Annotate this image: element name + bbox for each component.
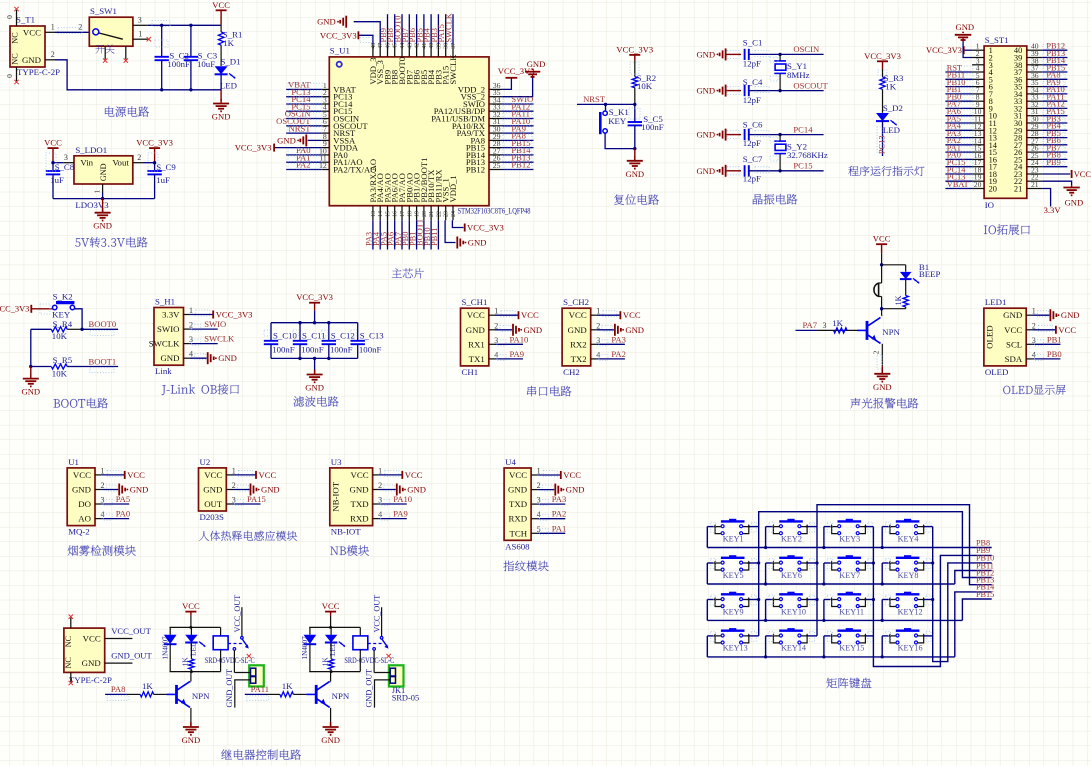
wire key left drop: [881, 600, 883, 621]
capacitor S_C4 12pF: [744, 85, 746, 96]
wire: [945, 100, 972, 102]
svg-text:S_LDO1: S_LDO1: [75, 145, 107, 155]
wire bottom: [882, 308, 906, 310]
svg-text:KEY10: KEY10: [781, 607, 806, 616]
wire: [945, 180, 972, 182]
no-connect X: [14, 80, 18, 84]
svg-text:32.768KHz: 32.768KHz: [787, 150, 828, 160]
svg-text:S_C4: S_C4: [743, 77, 763, 87]
wire pin1 to VCC_3V3: [964, 49, 972, 51]
svg-text:SWCLK: SWCLK: [204, 334, 235, 344]
wire: [190, 314, 213, 316]
svg-text:41: 41: [422, 43, 428, 49]
wire: [945, 115, 972, 117]
wire pin2 to GND: [963, 42, 972, 58]
svg-text:PA5: PA5: [116, 494, 131, 504]
wire: [945, 107, 972, 109]
ground left of S_C4: [725, 85, 727, 97]
wire: [1042, 144, 1067, 146]
wire base: [245, 693, 267, 695]
wire key right exit: [865, 562, 873, 564]
ground GND top: [345, 16, 347, 28]
button KEY7: [846, 555, 853, 558]
wire: [452, 14, 454, 44]
svg-text:S_C6: S_C6: [743, 120, 763, 130]
wire: [749, 170, 824, 172]
transistor NPN of relay driver: [175, 685, 178, 704]
ground left of S_C1: [725, 48, 727, 60]
ground GND above ST1: [962, 38, 964, 42]
S_CH2 box: [562, 308, 591, 366]
svg-text:VCC_3V3: VCC_3V3: [467, 223, 504, 233]
svg-text:NRST: NRST: [583, 94, 606, 104]
svg-text:VCC_OUT: VCC_OUT: [111, 626, 151, 636]
wire key right exit: [807, 599, 817, 601]
svg-text:4: 4: [1032, 350, 1036, 359]
wire: [233, 474, 256, 476]
wire: [233, 503, 261, 505]
svg-text:15: 15: [386, 211, 392, 217]
ground: [314, 373, 316, 375]
svg-text:3: 3: [1032, 336, 1036, 345]
pin 1 VCC of T1: [45, 31, 55, 33]
svg-text:SRD-05: SRD-05: [392, 693, 419, 702]
wire: [286, 169, 321, 171]
wire pin23 to VCC: [1042, 173, 1070, 175]
svg-text:LED: LED: [883, 125, 900, 135]
wire: [945, 188, 972, 190]
capacitor S_C1 12pF: [744, 49, 746, 60]
pin 3 of LDO1: [64, 162, 74, 164]
wire GND of T1 to bottom rail: [55, 60, 221, 90]
wire pin1: [234, 672, 250, 674]
wire VSS_1 to GND: [445, 220, 455, 242]
ground: [881, 366, 883, 374]
wire: [379, 518, 407, 520]
U2 box: [199, 468, 227, 511]
resistor R2 10K: [632, 77, 637, 88]
svg-text:NC: NC: [11, 32, 20, 44]
svg-text:GND: GND: [99, 163, 108, 181]
top stub: [70, 618, 72, 628]
svg-text:KEY4: KEY4: [898, 534, 919, 543]
switch contact: [233, 648, 236, 651]
polarity mark: [337, 62, 342, 67]
svg-text:12pF: 12pF: [743, 138, 761, 148]
button K1 KEY: [605, 104, 607, 111]
power flag VCC: [560, 471, 562, 479]
svg-text:GND: GND: [305, 383, 324, 393]
junction: [298, 357, 301, 360]
svg-text:TYPE-C-2P: TYPE-C-2P: [69, 675, 112, 685]
resistor 1K base: [834, 328, 847, 333]
svg-text:VCC: VCC: [322, 601, 340, 611]
wire key left drop: [765, 600, 767, 621]
wire: [945, 137, 972, 139]
title IO expansion: [984, 226, 987, 234]
wire: [379, 489, 396, 491]
wire: [143, 162, 155, 164]
wire: [502, 125, 533, 127]
junction: [160, 88, 163, 91]
wire: [1032, 314, 1049, 316]
ground: [554, 484, 556, 496]
wire: [101, 503, 129, 505]
connector T1 TYPE-C-2P: [10, 26, 45, 67]
svg-text:0: 0: [5, 74, 14, 78]
wire key right exit: [865, 599, 873, 601]
svg-text:47: 47: [378, 43, 384, 49]
button KEY10: [787, 592, 794, 595]
wire key right exit: [749, 635, 759, 637]
wire: [502, 103, 533, 105]
junction: [313, 357, 316, 360]
svg-text:PB1: PB1: [1047, 334, 1062, 344]
svg-text:10uF: 10uF: [197, 59, 215, 69]
wire: [495, 314, 518, 316]
svg-text:KEY8: KEY8: [898, 571, 919, 580]
svg-text:1: 1: [93, 189, 102, 193]
wire: [726, 134, 741, 136]
button KEY9: [729, 592, 736, 595]
svg-text:OSCIN: OSCIN: [793, 44, 820, 54]
ground: [118, 484, 120, 496]
svg-text:TCH: TCH: [509, 528, 527, 538]
power flag VCC: [401, 471, 403, 479]
junction: [51, 161, 54, 164]
wire: [1042, 129, 1067, 131]
svg-text:4: 4: [378, 510, 382, 519]
svg-text:2: 2: [596, 321, 600, 330]
wire collector: [329, 681, 332, 683]
svg-text:NPN: NPN: [882, 327, 900, 337]
svg-text:OLED: OLED: [985, 367, 1008, 377]
svg-text:S_U1: S_U1: [330, 46, 350, 56]
wire: [495, 329, 512, 331]
svg-text:GND: GND: [218, 353, 237, 363]
svg-text:1: 1: [596, 307, 600, 316]
svg-text:2: 2: [537, 481, 541, 490]
svg-text:GND: GND: [566, 485, 585, 495]
no-connect X on SW1 pin1: [147, 37, 151, 41]
svg-text:GND: GND: [277, 135, 296, 145]
wire: [945, 173, 972, 175]
wire: [1042, 100, 1067, 102]
wire: [401, 14, 403, 44]
svg-text:VCC_3V3: VCC_3V3: [235, 143, 272, 153]
relay switch: [381, 607, 383, 637]
junction: [189, 626, 192, 629]
resistor 1K base: [127, 693, 140, 695]
svg-text:GND: GND: [203, 485, 222, 495]
svg-text:NPN: NPN: [192, 691, 210, 701]
svg-text:VCC: VCC: [1004, 325, 1022, 335]
svg-text:1: 1: [101, 466, 105, 475]
button KEY13: [729, 628, 736, 631]
svg-text:GND: GND: [261, 485, 280, 495]
wire column 2 to PB13: [817, 505, 992, 636]
title dianyuan dianlu: [105, 106, 115, 116]
wire key right exit: [924, 599, 933, 601]
wire VCC to switch: [55, 31, 89, 33]
wire key left drop: [706, 600, 708, 621]
svg-text:1: 1: [378, 466, 382, 475]
svg-text:17: 17: [400, 211, 406, 217]
no-connect X: [247, 654, 251, 658]
wire: [945, 144, 972, 146]
svg-text:BOOT0: BOOT0: [89, 319, 117, 329]
svg-text:GND: GND: [22, 55, 41, 65]
svg-text:4: 4: [537, 510, 541, 519]
wire: [1042, 93, 1067, 95]
wire: [101, 518, 129, 520]
wire: [597, 358, 625, 360]
wire row3 to PB15: [962, 599, 991, 620]
ground below D1: [220, 90, 222, 101]
pin 2 of LDO1: [133, 162, 143, 164]
svg-text:GND: GND: [508, 485, 527, 495]
svg-text:TYPE-C-2P: TYPE-C-2P: [17, 67, 60, 77]
wire: [286, 103, 321, 105]
svg-text:GND: GND: [93, 221, 112, 231]
junction: [880, 263, 883, 266]
capacitor C2 100nF: [161, 25, 163, 57]
buzzer B1 BEEP: [881, 265, 883, 283]
title serial circuit: [527, 386, 536, 396]
wire: [401, 220, 403, 249]
wire column 4 to PB10: [933, 527, 992, 662]
transistor Q NPN: [881, 315, 884, 317]
svg-text:IO: IO: [985, 200, 994, 210]
svg-text:GND: GND: [524, 325, 543, 335]
ground GND: [532, 75, 534, 78]
svg-text:S_D2: S_D2: [883, 103, 903, 113]
wire: [1042, 57, 1067, 59]
svg-text:1K: 1K: [223, 38, 234, 48]
resistor R1 1K: [220, 25, 222, 32]
junction: [298, 321, 301, 324]
wire bottom rail: [271, 357, 358, 359]
svg-text:2: 2: [51, 50, 55, 59]
wire key right exit: [749, 526, 759, 528]
wire: [286, 118, 321, 120]
wire: [726, 90, 741, 92]
junction: [101, 197, 104, 200]
svg-text:GND: GND: [468, 238, 487, 248]
wire: [495, 343, 523, 345]
svg-text:VCC: VCC: [1058, 325, 1076, 335]
capacitor S_C13 100nF: [357, 323, 359, 341]
wire: [502, 110, 533, 112]
svg-text:VCC: VCC: [83, 634, 101, 644]
wire: [372, 220, 374, 249]
svg-text:3.3V: 3.3V: [162, 310, 180, 320]
ground: [250, 484, 252, 496]
svg-text:2: 2: [101, 481, 105, 490]
svg-text:20: 20: [422, 211, 428, 217]
svg-text:GND: GND: [568, 325, 587, 335]
wire: [597, 329, 614, 331]
svg-text:10K: 10K: [637, 81, 653, 91]
wire: [286, 161, 321, 163]
svg-text:U3: U3: [331, 457, 342, 467]
svg-text:40: 40: [429, 43, 435, 49]
svg-text:S_C10: S_C10: [273, 331, 298, 341]
wire NRST: [577, 103, 635, 105]
wire: [387, 14, 389, 44]
svg-text:10K: 10K: [52, 368, 68, 378]
title relay control circuit: [221, 749, 232, 759]
wire row2 to PB11: [955, 571, 992, 585]
svg-text:18: 18: [407, 211, 413, 217]
svg-text:1K: 1K: [142, 681, 153, 691]
wire: [726, 170, 741, 172]
svg-text:GND: GND: [873, 382, 892, 392]
resistor 1K of alarm: [905, 279, 907, 295]
svg-text:2: 2: [872, 350, 881, 354]
ground below LDO: [102, 199, 104, 213]
ground GND bottom: [456, 237, 458, 249]
wire GND to pin 47: [354, 22, 381, 44]
junction: [189, 88, 192, 91]
svg-text:S_C11: S_C11: [302, 331, 326, 341]
U4 box: [504, 468, 531, 540]
svg-text:NC: NC: [11, 53, 20, 65]
MCU U1 STM32F103C8T6_LQFP48: [329, 57, 489, 206]
wire: [1042, 71, 1067, 73]
svg-text:3: 3: [537, 496, 541, 505]
svg-text:SWCLK: SWCLK: [445, 13, 454, 42]
svg-text:GND: GND: [72, 485, 91, 495]
wire: [537, 474, 560, 476]
svg-text:KEY5: KEY5: [723, 571, 744, 580]
svg-text:RX1: RX1: [468, 339, 485, 349]
relay coil SRD-05VDC-SL-C: [359, 627, 361, 636]
svg-text:VCC: VCC: [521, 310, 539, 320]
button KEY14: [787, 628, 794, 631]
svg-text:PC14: PC14: [793, 124, 813, 134]
capacitor S_C6 12pF: [744, 129, 746, 140]
relay switch: [241, 607, 243, 637]
svg-text:STM32F103C8T6_LQFP48: STM32F103C8T6_LQFP48: [458, 206, 531, 216]
svg-text:SWIO: SWIO: [157, 324, 179, 334]
title fingerprint module: [503, 561, 514, 571]
wire: [882, 89, 884, 113]
svg-text:PA9: PA9: [393, 509, 408, 519]
svg-text:VCC: VCC: [182, 601, 200, 611]
svg-text:4: 4: [101, 510, 105, 519]
wire to GND: [502, 78, 532, 97]
wire: [286, 96, 321, 98]
wire: [495, 358, 523, 360]
svg-text:VCC: VCC: [509, 470, 527, 480]
svg-text:VCC_3V3: VCC_3V3: [864, 51, 901, 61]
U3 box: [330, 468, 373, 526]
svg-text:PB12: PB12: [466, 165, 485, 175]
wire: [749, 53, 824, 55]
svg-text:VCC_3V3: VCC_3V3: [0, 305, 29, 314]
wire column 3 to PB9: [873, 527, 991, 667]
svg-text:S_D1: S_D1: [221, 57, 241, 67]
svg-text:U1: U1: [68, 457, 79, 467]
svg-text:RXD: RXD: [350, 514, 369, 524]
svg-text:16: 16: [393, 211, 399, 217]
wire key left drop: [881, 527, 883, 548]
wire: [945, 158, 972, 160]
capacitor C5 100nF: [634, 104, 636, 122]
svg-text:NB-IOT: NB-IOT: [331, 527, 361, 537]
wire pin2 GND_OUT: [235, 680, 251, 708]
svg-text:1K: 1K: [832, 318, 843, 328]
junction: [880, 307, 883, 310]
svg-text:12pF: 12pF: [743, 58, 761, 68]
wire K2 to BOOT0 node: [75, 309, 83, 330]
svg-text:24: 24: [451, 211, 457, 217]
svg-text:100nF: 100nF: [359, 345, 382, 355]
svg-text:VCC: VCC: [873, 234, 891, 244]
wire pin1: [374, 672, 390, 674]
crystal Y1 8MHz: [779, 54, 781, 60]
svg-text:NB-IOT: NB-IOT: [330, 481, 340, 511]
svg-text:OUT: OUT: [204, 499, 223, 509]
wire emitter: [330, 708, 332, 722]
svg-text:VCC_3V3: VCC_3V3: [926, 46, 962, 55]
svg-text:KEY13: KEY13: [723, 644, 748, 653]
svg-text:1K: 1K: [885, 82, 896, 92]
wire: [1042, 115, 1067, 117]
junction: [329, 626, 332, 629]
svg-text:VCC_3V3: VCC_3V3: [136, 138, 173, 148]
wire: [945, 78, 972, 80]
svg-text:GND: GND: [160, 353, 179, 363]
title crystal circuit: [753, 194, 763, 204]
svg-text:OSCOUT: OSCOUT: [793, 80, 828, 90]
svg-text:NC: NC: [64, 657, 73, 669]
svg-text:S_C9: S_C9: [156, 162, 176, 172]
wire bottom rail: [170, 671, 221, 673]
svg-text:S_C8: S_C8: [55, 162, 75, 172]
wire key right exit: [865, 635, 873, 637]
power VCC_3V3: [506, 77, 518, 79]
wire pin2 GND_OUT: [375, 680, 391, 708]
svg-text:1: 1: [494, 307, 498, 316]
svg-text:1N4007: 1N4007: [301, 636, 309, 660]
title smoke detect module: [68, 545, 78, 555]
power flag VCC_3V3 top: [357, 31, 359, 39]
svg-text:46: 46: [386, 43, 392, 49]
svg-text:VCC: VCC: [623, 310, 641, 320]
svg-text:PA0: PA0: [116, 509, 131, 519]
svg-text:12pF: 12pF: [743, 174, 761, 184]
title main chip: [392, 268, 402, 278]
wire key left drop: [823, 600, 825, 621]
svg-text:KEY3: KEY3: [839, 534, 860, 543]
svg-text:PA7: PA7: [803, 320, 818, 330]
svg-text:KEY: KEY: [608, 116, 627, 126]
wire key right exit: [807, 526, 817, 528]
svg-text:VCC: VCC: [351, 470, 369, 480]
power flag VCC_3V3 bottom: [464, 224, 466, 232]
svg-text:GND_OUT: GND_OUT: [111, 651, 152, 661]
power flag VCC_3V3: [963, 46, 965, 54]
wire top rail: [170, 626, 221, 628]
svg-text:SWIO: SWIO: [204, 319, 226, 329]
power flag VCC: [619, 311, 621, 319]
LED of alarm: [905, 265, 907, 272]
wire: [597, 314, 620, 316]
diode 1N4007: [169, 627, 171, 634]
svg-text:1N4007: 1N4007: [161, 636, 169, 660]
